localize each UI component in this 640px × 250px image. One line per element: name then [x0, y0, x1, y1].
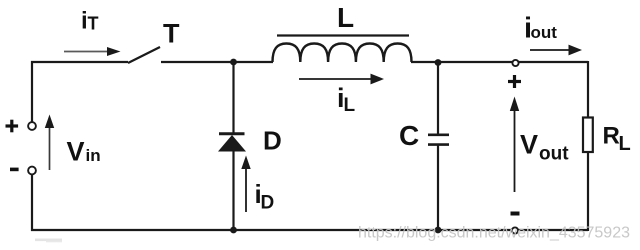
- svg-text:out: out: [531, 23, 558, 42]
- diode D cathode bar: [219, 132, 245, 135]
- input plus sign: [6, 120, 19, 133]
- output plus sign: [508, 75, 521, 88]
- svg-text:out: out: [539, 144, 569, 165]
- svg-text:D: D: [261, 193, 275, 214]
- svg-text:C: C: [399, 120, 419, 151]
- input minus sign: [10, 168, 19, 172]
- wire right vertical upper: [587, 61, 589, 118]
- switch T blade: [128, 47, 160, 63]
- junction node at diode top: [230, 59, 237, 66]
- svg-text:V: V: [67, 137, 85, 167]
- capacitor C plates: [428, 134, 449, 137]
- junction node at capacitor top: [435, 59, 442, 66]
- junction node at diode bottom: [230, 227, 237, 234]
- label iL: [337, 83, 356, 116]
- input terminal + circle: [28, 122, 36, 130]
- wire diode branch lower: [232, 150, 234, 230]
- output terminal + circle: [512, 60, 518, 66]
- label iout: [524, 13, 557, 45]
- svg-text:V: V: [520, 130, 538, 160]
- wire capacitor branch upper: [437, 62, 439, 134]
- label Vout: [520, 130, 569, 165]
- label Vin: [67, 137, 101, 167]
- resistor RL body: [583, 118, 593, 153]
- svg-text:https://blog.csdn.net/weixin_4: https://blog.csdn.net/weixin_43575923: [358, 225, 630, 242]
- svg-text:in: in: [86, 146, 101, 165]
- svg-text:R: R: [603, 123, 620, 150]
- wire left vertical upper: [31, 61, 33, 122]
- svg-text:D: D: [263, 126, 282, 156]
- wire left vertical lower: [31, 175, 33, 232]
- svg-text:T: T: [88, 14, 99, 34]
- svg-text:L: L: [337, 2, 354, 33]
- svg-text:T: T: [163, 19, 180, 49]
- arrow Vout: [510, 97, 519, 193]
- arrow Vin: [45, 115, 54, 171]
- svg-text:L: L: [344, 95, 356, 116]
- wire diode branch upper: [232, 62, 234, 133]
- wire capacitor branch lower: [437, 145, 439, 230]
- label iT: [81, 8, 99, 35]
- arrow iL: [299, 74, 384, 85]
- output terminal - circle: [512, 227, 518, 233]
- inductor L: [273, 44, 412, 63]
- junction node at capacitor bottom: [435, 227, 442, 234]
- faint watermark remnant bottom-left: [35, 239, 62, 242]
- wire top-left horizontal: [31, 61, 128, 63]
- arrow iT: [64, 47, 121, 56]
- diode D triangle: [218, 135, 246, 152]
- wire bottom horizontal: [31, 229, 588, 231]
- wire right vertical lower: [587, 151, 589, 231]
- label RL: [603, 123, 631, 156]
- wire switch to inductor: [161, 61, 273, 63]
- svg-text:L: L: [619, 133, 631, 155]
- arrow iD: [241, 156, 250, 213]
- label iD: [255, 179, 275, 214]
- inductor top bar: [277, 34, 409, 36]
- input terminal - circle: [28, 167, 36, 175]
- arrow iout: [530, 45, 582, 56]
- wire inductor to right corner: [411, 61, 588, 63]
- output minus sign: [511, 212, 520, 216]
